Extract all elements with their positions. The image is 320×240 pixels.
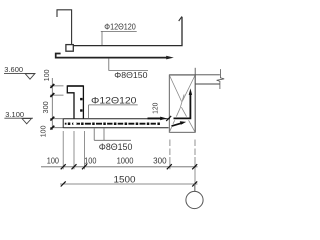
svg-text:Φ8Θ150: Φ8Θ150 xyxy=(114,70,147,80)
svg-text:100: 100 xyxy=(42,69,51,81)
svg-text:3.600: 3.600 xyxy=(4,65,23,74)
svg-text:100: 100 xyxy=(47,157,60,166)
svg-text:Φ12Θ120: Φ12Θ120 xyxy=(104,22,136,31)
svg-text:120: 120 xyxy=(153,103,160,114)
svg-text:300: 300 xyxy=(41,101,50,113)
svg-text:100: 100 xyxy=(38,126,47,138)
svg-text:1000: 1000 xyxy=(117,157,134,166)
svg-text:100: 100 xyxy=(84,157,97,166)
svg-text:3.100: 3.100 xyxy=(5,110,24,119)
svg-text:Φ12Θ120: Φ12Θ120 xyxy=(91,95,137,105)
svg-text:1500: 1500 xyxy=(114,175,136,186)
svg-text:Φ8Θ150: Φ8Θ150 xyxy=(99,142,133,152)
svg-text:300: 300 xyxy=(153,157,167,166)
